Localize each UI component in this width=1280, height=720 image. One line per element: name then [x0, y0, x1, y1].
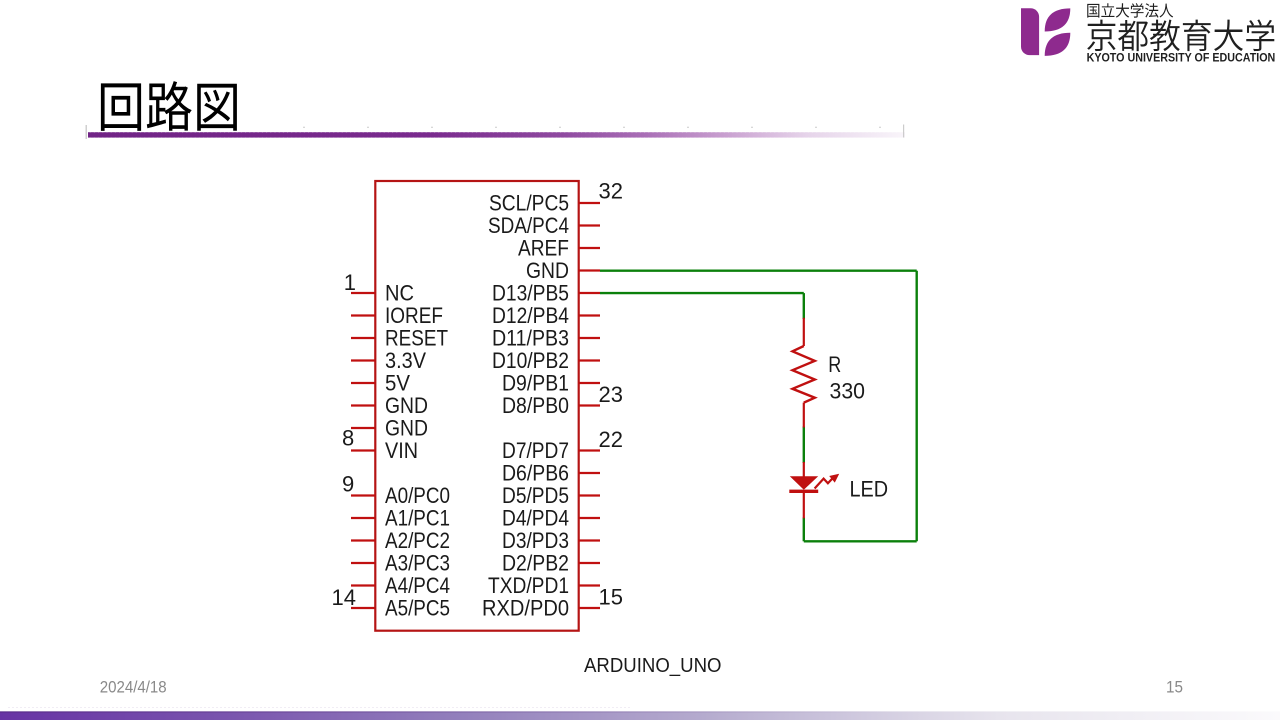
- svg-text:D9/PB1: D9/PB1: [502, 370, 569, 395]
- logo upper leaf: [1045, 8, 1071, 31]
- wire GND net: vertical into LED cathode pin: [803, 518, 805, 542]
- svg-text:D13/PB5: D13/PB5: [492, 280, 569, 305]
- pin name labels (right column): [482, 190, 569, 620]
- logo text 京都教育大学: [1087, 19, 1274, 51]
- pin 8 stub (VIN): [351, 449, 375, 451]
- pin 7 stub (GND): [351, 427, 375, 429]
- pin 3 stub (RESET): [351, 337, 375, 339]
- pin numbers (right: 32,23,22,15): [599, 178, 623, 609]
- university logo mark (purple bar): [1021, 8, 1039, 55]
- svg-text:D11/PB3: D11/PB3: [492, 325, 569, 350]
- svg-text:RESET: RESET: [385, 325, 448, 350]
- wire GND net: bottom horizontal to LED cathode: [804, 540, 917, 542]
- bottom bar top edge: [0, 711, 1280, 712]
- svg-text:RXD/PD0: RXD/PD0: [482, 595, 569, 620]
- pin 14 stub (A5/PC5): [351, 607, 375, 609]
- svg-text:D6/PB6: D6/PB6: [502, 460, 569, 485]
- svg-text:5V: 5V: [385, 370, 410, 395]
- pin 24 stub (D9/PB1): [579, 382, 600, 384]
- pin 16 stub (TXD/PD1): [579, 584, 600, 586]
- pin 1 stub (NC): [351, 292, 375, 294]
- svg-text:330: 330: [830, 379, 866, 404]
- svg-text:14: 14: [332, 585, 356, 610]
- svg-text:TXD/PD1: TXD/PD1: [488, 573, 569, 598]
- IC U1 ARDUINO_UNO symbol body: [375, 181, 578, 631]
- footer dotted separator: [8, 707, 632, 709]
- svg-text:D3/PD3: D3/PD3: [502, 528, 569, 553]
- pin 26 stub (D11/PB3): [579, 337, 600, 339]
- svg-text:AREF: AREF: [518, 235, 569, 260]
- svg-text:SDA/PC4: SDA/PC4: [488, 213, 569, 238]
- pin 4 stub (3.3V): [351, 359, 375, 361]
- pin 13 stub (A4/PC4): [351, 584, 375, 586]
- svg-text:D4/PD4: D4/PD4: [502, 505, 569, 530]
- pin 12 stub (A3/PC3): [351, 562, 375, 564]
- pin 15 stub (RXD/PD0): [579, 607, 600, 609]
- svg-text:KYOTO UNIVERSITY OF EDUCATION: KYOTO UNIVERSITY OF EDUCATION: [1087, 51, 1276, 65]
- pin 30 stub (AREF): [579, 247, 600, 249]
- svg-text:9: 9: [342, 471, 354, 496]
- pin 23 stub (D8/PB0): [579, 404, 600, 406]
- svg-text:GND: GND: [385, 393, 428, 418]
- svg-text:1: 1: [344, 270, 356, 295]
- svg-text:SCL/PC5: SCL/PC5: [489, 190, 569, 215]
- LED D1 anode pin: [803, 462, 805, 477]
- svg-text:32: 32: [599, 178, 623, 203]
- pin 11 stub (A2/PC2): [351, 539, 375, 541]
- LED D1 emission arrow: [815, 474, 840, 489]
- pin 9 stub (A0/PC0): [351, 494, 375, 496]
- pin 21 stub (D6/PB6): [579, 472, 600, 474]
- svg-text:3.3V: 3.3V: [385, 348, 426, 373]
- logo text 国立大学法人: [1087, 3, 1173, 18]
- pin 19 stub (D4/PD4): [579, 517, 600, 519]
- wire GND net: right vertical rail: [916, 271, 918, 542]
- svg-text:ARDUINO_UNO: ARDUINO_UNO: [584, 655, 722, 677]
- svg-text:NC: NC: [385, 280, 414, 305]
- svg-text:A2/PC2: A2/PC2: [385, 528, 450, 553]
- svg-text:A3/PC3: A3/PC3: [385, 550, 450, 575]
- pin 27 stub (D12/PB4): [579, 314, 600, 316]
- resistor R1 top pin: [803, 318, 805, 346]
- pin 25 stub (D10/PB2): [579, 359, 600, 361]
- svg-text:D5/PD5: D5/PD5: [502, 483, 569, 508]
- svg-text:D2/PB2: D2/PB2: [502, 550, 569, 575]
- pin 22 stub (D7/PD7): [579, 449, 600, 451]
- wire net between resistor and LED: [803, 427, 805, 464]
- LED D1 cathode pin: [803, 493, 805, 518]
- svg-text:VIN: VIN: [385, 438, 418, 463]
- wire D13 net: vertical down to resistor: [803, 293, 805, 319]
- logo lower leaf: [1045, 33, 1071, 56]
- svg-text:GND: GND: [385, 415, 428, 440]
- wire GND net: top horizontal from pin 29 to right rail: [600, 270, 917, 272]
- LED D1 triangle (anode): [790, 476, 818, 490]
- pin name labels (left column): [385, 280, 450, 620]
- svg-text:D8/PB0: D8/PB0: [502, 393, 569, 418]
- svg-text:D7/PD7: D7/PD7: [502, 438, 569, 463]
- pin 20 stub (D5/PD5): [579, 494, 600, 496]
- svg-text:A5/PC5: A5/PC5: [385, 595, 450, 620]
- bottom gradient bar: [0, 711, 1280, 720]
- pin 6 stub (GND): [351, 404, 375, 406]
- svg-text:IOREF: IOREF: [385, 303, 443, 328]
- resistor R1 zigzag body: [793, 346, 815, 403]
- pin 29 stub (GND): [579, 269, 600, 271]
- svg-text:A1/PC1: A1/PC1: [385, 505, 450, 530]
- pin 17 stub (D2/PB2): [579, 562, 600, 564]
- svg-text:A0/PC0: A0/PC0: [385, 483, 450, 508]
- wire D13 net: horizontal from pin 28: [600, 292, 804, 294]
- svg-text:23: 23: [599, 382, 623, 407]
- svg-text:15: 15: [599, 585, 623, 610]
- svg-text:GND: GND: [526, 258, 569, 283]
- svg-text:R: R: [828, 352, 841, 377]
- resistor R1 bottom pin: [803, 403, 805, 428]
- pin 10 stub (A1/PC1): [351, 517, 375, 519]
- pin 18 stub (D3/PD3): [579, 539, 600, 541]
- svg-text:8: 8: [342, 425, 354, 450]
- title underline gradient band: [88, 132, 905, 137]
- svg-text:15: 15: [1166, 679, 1183, 697]
- svg-text:D12/PB4: D12/PB4: [492, 303, 569, 328]
- pin 28 stub (D13/PB5): [579, 292, 600, 294]
- pin 31 stub (SDA/PC4): [579, 224, 600, 226]
- svg-text:2024/4/18: 2024/4/18: [100, 679, 167, 697]
- decor dots above band: [86, 125, 905, 140]
- pin 32 stub (SCL/PC5): [579, 202, 600, 204]
- svg-text:A4/PC4: A4/PC4: [385, 573, 450, 598]
- pin numbers (left: 1,8,9,14): [332, 270, 356, 610]
- pin 2 stub (IOREF): [351, 314, 375, 316]
- LED D1 cathode bar: [789, 490, 818, 493]
- svg-text:LED: LED: [850, 476, 889, 501]
- svg-text:22: 22: [599, 427, 623, 452]
- slide title 回路図: [101, 81, 237, 131]
- pin 5 stub (5V): [351, 382, 375, 384]
- svg-text:D10/PB2: D10/PB2: [492, 348, 569, 373]
